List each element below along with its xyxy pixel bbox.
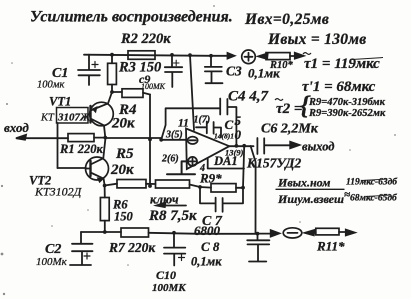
svg-text:С: С <box>225 117 234 132</box>
svg-text:R9=470к-319бмк: R9=470к-319бмк <box>308 97 386 108</box>
annotation output label <box>302 140 334 154</box>
annotation Uout <box>267 31 366 48</box>
svg-text:КТ3102Д: КТ3102Д <box>34 185 83 199</box>
resistor R6 <box>100 186 133 233</box>
svg-text:R5: R5 <box>115 146 134 162</box>
svg-text:VT1: VT1 <box>49 95 71 109</box>
svg-text:100МК: 100МК <box>141 82 166 91</box>
node top rail C9 <box>170 53 174 57</box>
resistor R2 <box>120 31 171 59</box>
capacitor C6 <box>257 122 318 155</box>
node R9 right <box>241 186 245 190</box>
resistor R7 <box>108 228 156 255</box>
node rail x150 <box>148 184 152 188</box>
svg-text:С 8: С 8 <box>201 239 220 254</box>
resistor R1 <box>58 134 106 156</box>
node bottom R6 <box>103 230 107 234</box>
capacitor C9 <box>139 55 182 91</box>
overbar 68mks <box>366 195 391 197</box>
svg-text:вход: вход <box>4 120 29 135</box>
node top rail C3 <box>209 54 213 58</box>
svg-text:τ'1 = 68мкс: τ'1 = 68мкс <box>302 79 376 95</box>
label box KT3107 <box>40 108 91 124</box>
capacitor C7 loop <box>194 187 243 238</box>
fraction bar <box>276 188 344 190</box>
svg-text:Усилитель воспроизведения.: Усилитель воспроизведения. <box>30 9 233 26</box>
wire input line to opamp <box>105 138 186 140</box>
node VT2 emitter <box>103 184 107 188</box>
capacitor C5 <box>196 113 242 142</box>
input arrow <box>16 135 58 140</box>
svg-text:68мкс-65дб: 68мкс-65дб <box>350 193 398 204</box>
svg-text:R8 7,5к: R8 7,5к <box>148 208 197 224</box>
label IC type <box>246 156 301 171</box>
svg-text:Ивых.ном: Ивых.ном <box>277 176 330 190</box>
wire plus input ground <box>167 161 195 174</box>
node VT1 emitter R1 <box>103 136 107 140</box>
annotation Uin <box>244 11 329 28</box>
svg-text:С2: С2 <box>45 242 61 257</box>
wire pin11 from rail <box>190 55 194 130</box>
overbar 119mks <box>362 179 387 181</box>
svg-text:К157УД2: К157УД2 <box>246 156 301 171</box>
resistor R10 <box>258 53 303 71</box>
annotation noise formula <box>277 176 398 207</box>
resistor R11 <box>305 228 355 253</box>
overbar mks tau1 <box>352 58 383 60</box>
svg-text:С4 4,7: С4 4,7 <box>228 89 269 105</box>
annotation tau1 <box>304 56 380 72</box>
node C4 branch <box>159 138 163 142</box>
svg-text:100Мк: 100Мк <box>36 256 68 268</box>
svg-text:Ишум.взвеш: Ишум.взвеш <box>277 192 344 206</box>
minus supply terminal <box>283 228 302 238</box>
svg-text:R1 220к: R1 220к <box>59 142 103 156</box>
svg-text:DA1: DA1 <box>213 154 238 168</box>
svg-text:6800: 6800 <box>194 223 221 238</box>
capacitor C3 <box>205 56 280 83</box>
node R3-R4 <box>110 90 114 94</box>
wire DA1 pin4 box <box>208 159 244 169</box>
transistor VT2 <box>29 140 109 199</box>
wire top rail <box>84 55 211 56</box>
svg-text:R9=390к-2652мк: R9=390к-2652мк <box>308 108 386 119</box>
svg-text:R2 220к: R2 220к <box>120 31 171 47</box>
annotation tau1prime <box>302 79 376 95</box>
svg-text:11: 11 <box>178 118 189 130</box>
node output <box>242 144 246 148</box>
arrow bottom rail to minus supply <box>258 230 280 236</box>
svg-text:С6 2,2Мк: С6 2,2Мк <box>261 122 319 137</box>
resistor R9 <box>199 171 236 193</box>
wire arrow to plus supply <box>211 53 235 59</box>
svg-text:τ2 =: τ2 = <box>276 101 302 117</box>
svg-text:Ивых = 130мв: Ивых = 130мв <box>267 31 366 48</box>
wire R4 down <box>149 95 151 187</box>
wire mid rail <box>105 184 243 188</box>
svg-text:выход: выход <box>302 140 334 154</box>
svg-text:3107Ж: 3107Ж <box>57 112 91 124</box>
svg-text:3(5): 3(5) <box>165 130 183 141</box>
svg-text:0,1мк: 0,1мк <box>248 66 280 81</box>
capacitor C8 <box>191 234 269 269</box>
resistor R5 <box>110 146 146 188</box>
node input x150 <box>148 138 152 142</box>
svg-text:0: 0 <box>235 127 242 142</box>
annotation tau2 <box>276 91 386 120</box>
wire output <box>229 145 253 147</box>
svg-text:150: 150 <box>114 210 134 224</box>
wire bottom rail <box>81 232 258 234</box>
svg-text:R7 220к: R7 220к <box>108 240 156 255</box>
node top rail R3 <box>110 53 114 57</box>
svg-text:20к: 20к <box>111 116 135 132</box>
svg-text:14(8)1: 14(8)1 <box>214 132 234 141</box>
kluch arrow <box>150 193 186 208</box>
svg-text:5: 5 <box>235 113 242 128</box>
resistor R8 <box>148 180 197 224</box>
tilde tau2 <box>275 99 283 101</box>
svg-text:Ивх=0,25мв: Ивх=0,25мв <box>244 11 329 28</box>
svg-text:119мкс-63дб: 119мкс-63дб <box>346 177 398 188</box>
svg-text:КТ: КТ <box>40 113 55 124</box>
title <box>30 9 233 26</box>
svg-text:4: 4 <box>199 163 205 174</box>
svg-text:R11*: R11* <box>316 239 345 254</box>
node R9 left <box>198 185 202 189</box>
resistor R3 <box>108 55 162 92</box>
svg-text:0,1мк: 0,1мк <box>191 255 222 269</box>
capacitor C4 <box>161 89 268 146</box>
node C4 output <box>235 144 239 148</box>
transistor VT1 <box>49 92 113 138</box>
svg-text:С10: С10 <box>156 268 176 282</box>
node bottom C8 <box>256 232 260 236</box>
plus supply terminal <box>242 50 256 64</box>
svg-text:100мк: 100мк <box>37 80 64 91</box>
node bottom C10 <box>172 231 176 235</box>
node top rail pin11 <box>188 53 192 57</box>
svg-text:100МК: 100МК <box>152 282 186 294</box>
resistor R4 <box>111 89 150 132</box>
svg-text:20к: 20к <box>110 162 134 178</box>
capacitor C1 <box>37 55 100 91</box>
svg-text:2(6): 2(6) <box>161 154 179 165</box>
tilde tau1 <box>303 53 311 55</box>
wire input to base column <box>57 123 59 168</box>
capacitor C2 <box>36 232 93 268</box>
op-amp DA1 <box>161 115 244 175</box>
capacitor C10 <box>152 233 186 294</box>
wire to VT2 base <box>58 167 87 169</box>
wire output down to rail <box>251 146 256 234</box>
svg-text:С3: С3 <box>226 64 242 79</box>
wire feedback to output <box>243 146 244 188</box>
